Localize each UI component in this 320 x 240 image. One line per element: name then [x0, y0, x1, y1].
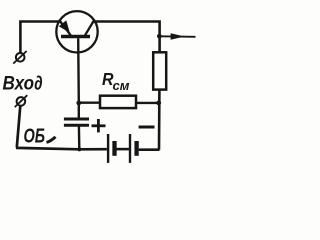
resistor R1 (collector load, vertical) [153, 52, 166, 89]
node: bottom junction under capacitor [77, 147, 81, 151]
battery GB1 cell1 short electrode (-) [112, 141, 116, 156]
wire battery to bottom-right corner [139, 148, 160, 151]
svg-text:ОБ: ОБ [24, 126, 46, 148]
wire collector to right branch (top) [94, 22, 160, 53]
battery GB1 cell2 short electrode (-) [134, 141, 138, 156]
wire base down to junction [77, 38, 80, 103]
transistor VT1 emitter with arrow [60, 21, 71, 36]
label ОБ with comma [24, 126, 46, 148]
node: Rсм / right branch junction [156, 101, 161, 106]
terminal ОБ (circle with slash) [15, 95, 28, 107]
label Rсм [102, 69, 130, 93]
node: base/Rсм/capacitor junction [76, 101, 81, 106]
wire resistor R1 to bottom-right [158, 90, 161, 150]
wire capacitor to bottom wire [78, 125, 81, 149]
wire input terminal to emitter (left L-shape) [20, 22, 60, 53]
transistor VT1 circle [56, 11, 97, 52]
wire junction to capacitor [78, 103, 80, 118]
resistor R2 Rсм (bias, horizontal) [79, 96, 158, 108]
battery GB1 cell1 long electrode (+) [107, 134, 109, 163]
input terminal (circle with slash) [13, 51, 26, 64]
transistor VT1 collector [85, 20, 94, 35]
node: collector/output junction [157, 34, 162, 39]
label + (battery plus) [92, 119, 106, 132]
battery GB1 cell2 long electrode (+) [129, 134, 131, 163]
output arrow [161, 33, 196, 39]
wire between battery cells [117, 148, 129, 151]
transistor VT1 base bar [61, 35, 90, 38]
wire ОБ terminal to bottom rail [17, 106, 107, 150]
comma mark after ОБ [47, 137, 56, 143]
label - (battery minus) [139, 126, 155, 129]
svg-text:см: см [113, 79, 130, 93]
svg-text:Вхо∂: Вхо∂ [3, 73, 43, 95]
capacitor C1 [64, 119, 89, 125]
